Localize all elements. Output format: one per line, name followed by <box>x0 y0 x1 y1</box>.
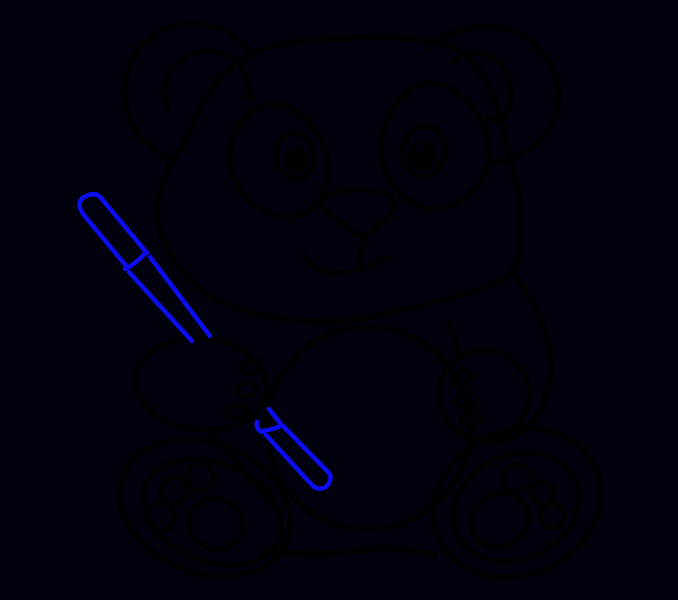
right foot sole <box>435 433 596 581</box>
left foot toe 2 <box>161 477 187 503</box>
left eye patch <box>229 104 328 216</box>
left foot sole <box>127 440 297 585</box>
right foot toe 2 <box>532 482 554 504</box>
right foot pad <box>462 483 538 557</box>
left ear outer <box>124 23 252 157</box>
bamboo node upper <box>125 252 146 269</box>
right arm inner line <box>448 320 461 358</box>
belly oval <box>266 327 470 529</box>
left foot pad <box>181 490 252 557</box>
left ear inner <box>164 51 250 112</box>
bamboo upper right edge <box>101 198 147 253</box>
right arm outer <box>490 272 550 442</box>
right paw <box>439 350 529 440</box>
bamboo bottom cap <box>312 475 331 489</box>
right foot toe 1 <box>498 461 535 496</box>
bamboo mid right edge <box>150 257 210 336</box>
bamboo upper left edge <box>83 214 127 267</box>
left paw pad 2 <box>235 381 258 399</box>
body bottom line <box>263 549 436 556</box>
left foot toe 1 <box>148 504 175 531</box>
philtrum <box>359 236 364 266</box>
left eye outline <box>273 131 317 182</box>
right eye outline <box>401 124 448 178</box>
panda head outline <box>157 38 521 322</box>
right eye highlight <box>415 142 425 152</box>
right ear outer <box>430 26 558 162</box>
right pupil <box>409 141 435 169</box>
right paw pad 1 <box>450 367 474 390</box>
left paw <box>131 331 272 436</box>
bamboo stub left hook <box>257 422 263 432</box>
bamboo mid left edge <box>129 272 192 341</box>
left paw pad 1 <box>239 356 263 377</box>
bamboo lower left edge <box>266 435 312 485</box>
right paw pad 3 <box>460 410 482 427</box>
left eye highlight <box>289 144 298 153</box>
left foot toe 3 <box>187 464 213 490</box>
bamboo top cap <box>79 194 101 214</box>
bamboo node lower <box>263 425 282 431</box>
left foot outer <box>99 415 311 600</box>
bamboo stub right edge <box>269 409 281 424</box>
left paw pad 3 <box>226 405 247 420</box>
right ear inner <box>453 53 511 121</box>
bamboo lower right edge <box>283 426 330 474</box>
left pupil <box>284 146 308 172</box>
mouth smile <box>303 254 388 273</box>
right paw pad 2 <box>454 390 478 410</box>
right foot outer <box>409 402 625 600</box>
nose <box>321 190 395 236</box>
right eye patch <box>381 83 489 209</box>
left leg line <box>210 432 281 513</box>
right foot toe 3 <box>540 504 564 528</box>
